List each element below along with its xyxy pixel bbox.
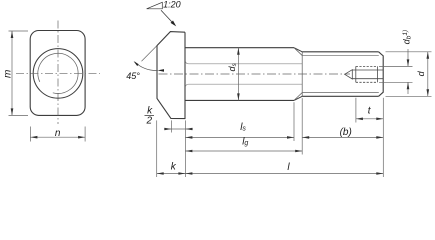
45 degree chamfer extension line	[142, 46, 157, 61]
svg-text:45°: 45°	[126, 71, 140, 81]
side view: end chamfer and end face	[379, 52, 384, 97]
taper symbol	[147, 2, 163, 9]
left view: square head end view outline	[30, 31, 85, 116]
thread runout diagonal top	[294, 48, 302, 56]
svg-text:(b): (b)	[340, 127, 352, 138]
thread root line top	[302, 55, 378, 57]
thread root line bottom	[302, 91, 378, 93]
45 degree arc with arrows	[134, 61, 164, 72]
dimension n: extension lines	[30, 127, 85, 142]
bolt axis centerline	[159, 73, 351, 75]
svg-text:2: 2	[146, 116, 153, 127]
dimension t	[356, 118, 383, 121]
leader arrow for 1:20	[161, 10, 176, 26]
dimension db (outside arrows)	[407, 49, 410, 94]
left view: horizontal centerline	[16, 73, 100, 75]
thread runout end vertical	[301, 52, 303, 97]
center hole: thread box dashed bottom	[356, 81, 378, 83]
extension lines below	[157, 98, 384, 177]
label k/2 fraction	[145, 106, 155, 127]
dimension l	[185, 172, 383, 175]
dimension m: extension lines	[9, 31, 29, 115]
svg-text:1:20: 1:20	[163, 0, 181, 9]
dimension ls	[185, 136, 294, 139]
dimension m: dimension line with arrows	[11, 31, 14, 115]
center hole: thread box right vertical	[377, 66, 379, 82]
center hole: thread box left vertical	[355, 66, 357, 82]
extension lines for d	[386, 52, 432, 97]
left view: shank circle	[33, 49, 83, 99]
thread major outline top	[302, 51, 378, 53]
dimension k	[157, 172, 186, 175]
center hole: thread box dashed top	[356, 65, 378, 67]
side view: fitted shank outline top	[185, 47, 294, 49]
center hole: pilot cone	[345, 70, 353, 79]
left view: inner arc (incomplete circle)	[38, 53, 78, 93]
side view: fitted shank outline bottom	[185, 99, 294, 101]
left view: vertical centerline	[57, 21, 59, 125]
dimension d	[427, 52, 430, 97]
shank-to-thread chamfer top	[294, 48, 302, 52]
extension lines for db	[379, 66, 413, 82]
dimension k/2	[164, 128, 193, 131]
thread runout diagonal bottom	[294, 92, 302, 100]
center hole: inner cylinder lines	[352, 69, 383, 71]
side view: neck inner line bottom with fillet	[185, 84, 302, 87]
side view: bolt head outline	[157, 32, 185, 119]
shank-to-thread chamfer bottom	[294, 96, 302, 100]
svg-text:n: n	[55, 128, 61, 139]
svg-text:m: m	[2, 70, 13, 78]
thread major outline bottom	[302, 95, 378, 97]
side view: neck inner line top with fillet	[185, 61, 302, 64]
dimension (b)	[302, 136, 383, 139]
dimension ds	[237, 48, 240, 101]
dimension n: dimension line with arrows	[30, 136, 85, 139]
dimension lg	[185, 150, 302, 153]
